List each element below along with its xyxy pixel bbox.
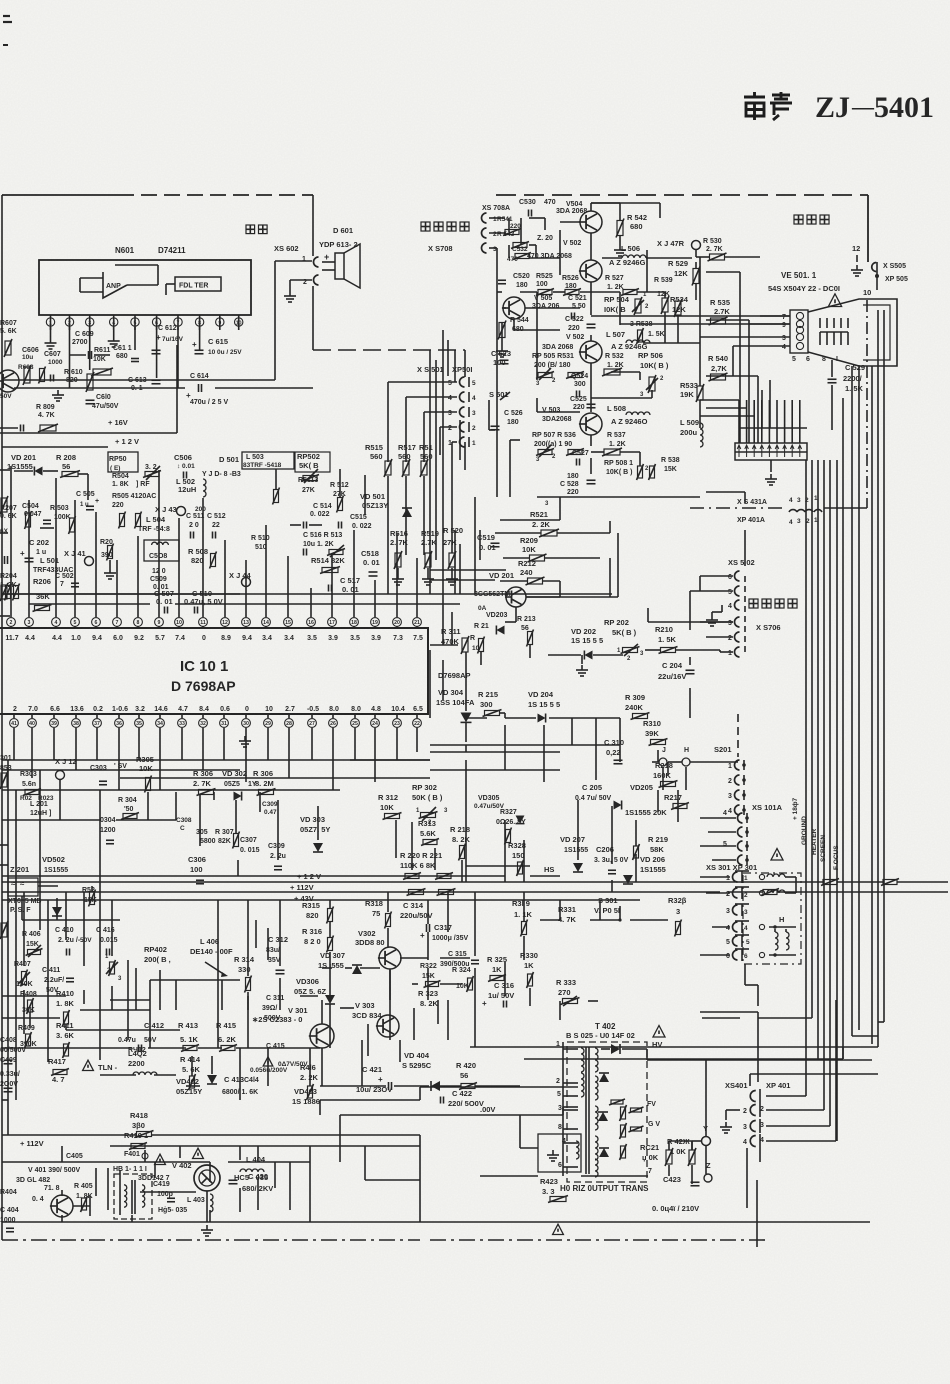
transistor V601 [0, 370, 19, 392]
op-amp AMP triangle [103, 272, 127, 298]
potentiometer RP501 box [108, 452, 138, 472]
pin 14 IC101 top [262, 618, 271, 627]
CRT inner pins [819, 318, 821, 328]
wire lower-left left column [7, 760, 9, 1135]
wire bus resistors [823, 880, 837, 885]
pin 3 IC101 top [25, 618, 34, 627]
ground pin1 [50, 327, 52, 338]
wire dashed rail to exciter [313, 349, 465, 351]
box HB1 transformer [114, 1174, 152, 1219]
transformer core [585, 1047, 587, 1174]
pin 34 IC101 bottom [156, 719, 165, 728]
pin 29 IC101 bottom [264, 719, 273, 728]
wire exciter interconnects [496, 255, 498, 292]
diode HV top [611, 1044, 620, 1054]
label 至遥控板 mid [749, 599, 758, 608]
wire top border exciter-board [496, 194, 868, 196]
pin 37 IC101 bottom [93, 719, 102, 728]
wire long horizontal 1047 [470, 1046, 878, 1048]
warning TLN [83, 1060, 94, 1070]
pin 27 IC101 bottom [308, 719, 317, 728]
resistor fv chain [611, 1100, 623, 1104]
pin 41 IC101 bottom [10, 719, 19, 728]
wire flyback pin column [562, 1042, 564, 1176]
wire low mid rails [430, 744, 620, 746]
transistor VD201b circle [526, 596, 560, 598]
wire s501 link [488, 400, 490, 430]
wire audio block right side [176, 345, 178, 433]
wire IF section top rail [2, 446, 108, 448]
wire lower-left long rails [2, 769, 240, 771]
wire second mid rail [430, 751, 560, 753]
wire mid cluster links [199, 794, 201, 846]
wire +12V bus [2, 881, 505, 883]
ground comb [770, 460, 772, 472]
wire rp202 to xs502 [648, 621, 733, 623]
wire left-edge ticks [0, 469, 10, 471]
connector XS101A arcs [738, 813, 743, 823]
pin 17 IC101 top [328, 618, 337, 627]
wire IC101 pin drop rails [2, 759, 430, 761]
wire hot base [140, 1191, 196, 1193]
resistor r505b [136, 514, 141, 527]
wire flyback mid rail [480, 1175, 538, 1177]
pin 5 N601 [134, 315, 136, 330]
wire flyback pin stubs [563, 1048, 578, 1050]
capacitor left-edge stub3 [4, 556, 6, 564]
warning bottom [553, 1224, 564, 1234]
wire damper to flyback [520, 1147, 538, 1149]
wire hv c529 drop [831, 398, 833, 430]
wire s201 contacts [735, 760, 740, 770]
wire xs301 feeds [700, 876, 730, 878]
wire mid right column x658 [657, 790, 659, 812]
box L505 with coil (C508) [144, 540, 179, 561]
transistor V402 power [194, 1165, 220, 1191]
wire exciter bottom rail [537, 496, 700, 498]
pin 32 IC101 bottom [199, 719, 208, 728]
wire IC101 top pin risers [10, 466, 12, 604]
wire xs301 below drop [744, 964, 746, 985]
wire xs501 feeds left [388, 381, 457, 383]
title 南声 (drawn glyphs) [744, 92, 792, 120]
wire audio bottom rail [14, 387, 185, 389]
pin 8 N601 [199, 315, 201, 330]
wire rail corner down to XS501 [464, 350, 466, 377]
wire right of ic101 [442, 604, 444, 645]
resistor R204 left [14, 586, 19, 599]
box damper lower-left [538, 1134, 581, 1172]
wire upper mid extra verticals [454, 350, 456, 382]
wire IC101 bottom pin drops [13, 742, 15, 760]
wire right border exciter vertical [867, 195, 869, 262]
wire amp feedback [127, 284, 158, 286]
wire xs708a loop [508, 218, 510, 232]
wire v504 base [560, 221, 580, 223]
wire exciter to socket rows [591, 315, 790, 317]
IC IC101 D7698AP box [0, 628, 428, 714]
diode sec2 [598, 1112, 608, 1121]
pin 7 N601 [177, 315, 179, 330]
wire row292 [520, 291, 537, 293]
wire r329 links [523, 892, 525, 922]
wire z201 links [38, 885, 58, 887]
wire hv row 1086 [320, 1085, 386, 1087]
wire r542 top [619, 202, 621, 204]
ground below IC pin29 [244, 736, 246, 741]
wire v201 emitter row [515, 607, 517, 622]
pin 9 N601 [219, 315, 221, 330]
resistor row292b [623, 290, 637, 295]
pin 1 N601 [50, 315, 52, 330]
wire xs101a feeds [700, 817, 736, 819]
pin 25 IC101 bottom [351, 719, 360, 728]
pin 22 IC101 bottom [413, 719, 422, 728]
label 至遥控板 (top) [421, 222, 430, 231]
wire crt inner [820, 331, 848, 333]
pin 9 IC101 top [155, 618, 164, 627]
wire fdlter leads [166, 283, 175, 285]
wire +12V rail [0, 432, 177, 434]
wire rp402 region [159, 970, 161, 1010]
wire right bundle staircase to xs401 [805, 1000, 807, 1050]
wire flyback bottom rail [420, 1221, 870, 1223]
pin 11 IC101 top [199, 618, 208, 627]
ground pin12 [856, 255, 858, 262]
pin 8 IC101 top [134, 618, 143, 627]
ground XS602 [289, 291, 291, 296]
pin 39 IC101 bottom [50, 719, 59, 728]
wire xs401 feeds from right [766, 1095, 806, 1097]
paper noise overlay [0, 0, 1, 1]
transformer secondary winding [595, 1048, 598, 1072]
wire XS602 riser [312, 195, 314, 256]
pin 10 IC101 top [175, 618, 184, 627]
wire dash border into connector [690, 507, 786, 509]
connector XS401 bottom contacts [750, 1091, 756, 1102]
pin 10 N601 [238, 315, 240, 330]
connector XP301 dashed box [743, 873, 801, 964]
transistor V401 leads [73, 1205, 90, 1207]
wire right verticals far [871, 366, 873, 1044]
pin 23 IC101 bottom [393, 719, 402, 728]
ground R608 [57, 390, 59, 395]
pin 36 IC101 bottom [115, 719, 124, 728]
op-amp box N601 [39, 260, 251, 315]
wire hs bus [466, 865, 530, 867]
wire right border dash-dot vertical [866, 300, 868, 508]
pin 19 IC101 top [371, 618, 380, 627]
wire mid-left row y820 [2, 819, 100, 821]
wire rails above IC101 extended [2, 593, 240, 595]
resistor left-edge stub2 [1, 585, 7, 599]
pin 24 IC101 bottom [371, 719, 380, 728]
wire y900 drops [559, 900, 561, 920]
wire row 718 [466, 717, 487, 719]
wire r421 r422 tops [668, 1141, 670, 1150]
wire v302 emitter [389, 969, 391, 1000]
wire flyback left feeds [480, 1086, 578, 1088]
warning triangle HV [653, 1026, 665, 1038]
wire long rail y594 [240, 593, 612, 595]
pin 30 IC101 bottom [242, 719, 251, 728]
wire flyback right horiz [706, 1059, 872, 1061]
capacitor left-edge C409 [4, 1087, 13, 1089]
wire buses to right edge [505, 881, 760, 883]
wire lower-left grid rails [2, 995, 66, 997]
wire mid region verticals [454, 530, 456, 594]
wire speaker down to dashed rail [312, 286, 314, 350]
coil damper [576, 1141, 579, 1159]
warning v402 [155, 1154, 166, 1164]
resistor left-edge stub1 [1, 498, 7, 512]
capacitor left-edge C408 [4, 1059, 13, 1061]
warning xs301 [771, 849, 783, 861]
diode VD5 main [402, 508, 412, 517]
wire xj47r down [695, 250, 697, 257]
warning l404 [193, 1148, 204, 1158]
pin 4 N601 [113, 315, 115, 330]
wire N601 pin drops [69, 327, 71, 350]
diode sec1 [599, 1073, 609, 1082]
wire r515 drop [387, 476, 389, 594]
resistor +112V bus mid 1 [409, 890, 424, 895]
wire exciter bus joins [805, 459, 807, 461]
pin 28 IC101 bottom [285, 719, 294, 728]
ground r519 [427, 568, 429, 574]
wire hs row [530, 875, 560, 877]
wire l506 row [602, 257, 622, 259]
wire bottom border dash-dot [2, 1239, 420, 1241]
resistor left-edge stub4 [1, 773, 7, 787]
wire j h feeds [652, 761, 659, 763]
pin 3 N601 [89, 315, 91, 330]
pin 6 IC101 top [92, 618, 101, 627]
resistor left-edge stub5 [1, 923, 7, 937]
wire v504 collector [590, 203, 592, 211]
wire xs502 leads [700, 575, 733, 577]
wire below xs706 [667, 762, 669, 775]
pin 35 IC101 bottom [135, 719, 144, 728]
comb connector multi-pin [735, 443, 807, 460]
wire exciter input rows [489, 217, 505, 219]
wire lower mid verticals [465, 760, 467, 882]
wire c204 drop [689, 657, 691, 665]
ground r520 [451, 568, 453, 574]
wire hot area extra [107, 1168, 109, 1210]
resistor +112V bus mid 2 [439, 890, 454, 895]
wire flyback feed rows [320, 1099, 420, 1101]
wire right vertical bus bundle [805, 460, 807, 1000]
wire vd204 bus drops [504, 725, 506, 770]
wire staircase left xs301 [700, 1011, 758, 1013]
wire below xs401 [746, 1148, 748, 1208]
label 激励板 [794, 215, 803, 224]
wire lower power verticals [329, 900, 331, 908]
wire y645 link [430, 644, 458, 646]
wire v201 links [430, 569, 506, 571]
pin 2 N601 [69, 315, 71, 330]
box L503 TRF-5418 [242, 452, 294, 469]
wire xs602 leads [275, 260, 312, 262]
pin 12 IC101 top [221, 618, 230, 627]
wire r51x verticals [275, 469, 277, 489]
wire exciter to XS401A [706, 491, 745, 493]
wire hv line right [646, 1049, 648, 1060]
wire exciter lower rail2 [496, 310, 498, 497]
wire mid vertical bundle [429, 350, 431, 594]
wire exciter top rail [591, 202, 660, 204]
wire y z feeds [692, 1140, 702, 1142]
warning triangle exciter [828, 294, 841, 307]
transformer primary winding [581, 1048, 584, 1072]
wire exciter right verticals [761, 390, 763, 428]
wire s201 drop dash [737, 714, 739, 757]
pin 2 IC101 top [7, 618, 16, 627]
ground xs401 [726, 1109, 740, 1111]
ground pin4 [113, 327, 115, 336]
pin 21 IC101 top [413, 618, 422, 627]
ground r516 [397, 568, 399, 574]
wire power mid links [345, 967, 352, 969]
wire rp202 row [548, 654, 581, 656]
wire comb risers high [738, 400, 740, 428]
wire left page border [1, 195, 3, 1240]
pin 15 IC101 top [284, 618, 293, 627]
ground r544 [501, 338, 503, 346]
pin 26 IC101 bottom [329, 719, 338, 728]
CRT funnel [808, 299, 897, 366]
pin 4 IC101 top [52, 618, 61, 627]
ground damper [552, 1150, 554, 1155]
wire regulator rows [150, 979, 240, 981]
pin 31 IC101 bottom [220, 719, 229, 728]
wire v-chain base feeds [503, 307, 506, 309]
wire connector drop [744, 530, 746, 560]
wire s301 row [540, 919, 560, 921]
wire right bus extra vertical [883, 310, 885, 1022]
wire right bundle turns [811, 1000, 813, 1018]
ground VD202 [581, 655, 583, 664]
pin 40 IC101 bottom [28, 719, 37, 728]
wire c421 bottom rail [319, 1100, 321, 1115]
transformer T402 dashed box [567, 1042, 647, 1182]
pin 7 IC101 top [113, 618, 122, 627]
wire xs401 vertical feed [757, 1012, 759, 1082]
wire speaker line from XS602 [274, 261, 276, 380]
pin 13 IC101 top [242, 618, 251, 627]
wire socket feeds [760, 315, 790, 317]
wire resistor bus right2 [763, 890, 777, 895]
wire +43V bus [2, 899, 505, 901]
CRT socket box [790, 310, 808, 353]
wire crt bottom drop [858, 366, 860, 1030]
pin 20 IC101 top [393, 618, 402, 627]
diode sec3 [599, 1148, 609, 1157]
label 主板 [246, 225, 255, 234]
deflection yoke V coil [759, 874, 764, 879]
wire power area extra [255, 920, 257, 948]
wire xs501 risers down [387, 382, 389, 462]
wire right-mid link horizontals [842, 398, 844, 1059]
wire r521 lines [495, 532, 541, 534]
ground r203 [109, 560, 111, 568]
connector XS301 contacts [733, 872, 738, 882]
wire top border main-board [2, 194, 118, 196]
wire bus under tuner to pins [2, 593, 240, 595]
wire long horizontal 1059 [524, 1058, 843, 1060]
wire long rail y604 [29, 603, 150, 605]
wire vd304 line [465, 652, 467, 711]
wire r213 drop [529, 645, 531, 658]
capacitor audio in [20, 425, 22, 432]
wire bottom hot area [2, 1099, 8, 1101]
wire v50x chain vertical [590, 233, 592, 260]
transistor V401 [51, 1195, 73, 1217]
wire right mid column x620 [619, 718, 621, 762]
pin 5 IC101 top [71, 618, 80, 627]
pin 18 IC101 top [350, 618, 359, 627]
box FDLTER [175, 277, 221, 291]
wire +112V bus [2, 891, 720, 893]
ground xs502 [721, 605, 723, 612]
wire top left tick marks [3, 15, 10, 17]
pin 16 IC101 top [307, 618, 316, 627]
wire comb risers [738, 428, 740, 443]
pin 6 N601 [156, 315, 158, 330]
wire r529 col [695, 262, 697, 269]
pin 38 IC101 bottom [72, 719, 81, 728]
pin 33 IC101 bottom [178, 719, 187, 728]
wire bottom audio rails [2, 1161, 120, 1163]
wire comb feed lines [706, 271, 740, 273]
wire l402 bottom [100, 1074, 136, 1076]
wire bus 1135 [2, 1134, 136, 1136]
